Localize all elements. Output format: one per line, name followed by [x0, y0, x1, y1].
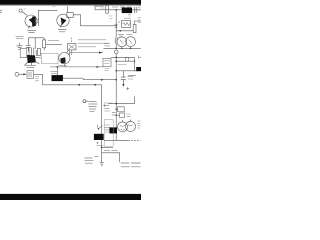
black blob BB3 on bus	[110, 128, 117, 133]
trimmer capacitor C2 in bus	[115, 38, 117, 49]
battery B1 (filled)	[122, 8, 132, 13]
branch wire y103.6 with hook	[108, 96, 135, 103]
connector J2	[15, 72, 19, 76]
lower rail of top-right cluster	[104, 47, 141, 49]
text right of T2	[137, 121, 140, 128]
text left of bus (right cluster)	[104, 103, 113, 105]
connector circle on bus	[115, 50, 119, 54]
marks below BB2	[96, 142, 98, 144]
Q4 bottom lead	[64, 64, 65, 67]
Q4 right lead to LWA	[69, 53, 70, 55]
tall enclosure rect	[104, 120, 113, 147]
box RB1	[118, 107, 125, 112]
junction dot	[120, 30, 122, 32]
text above wire	[48, 40, 59, 42]
long wire LWC	[63, 78, 116, 80]
resistor R2 right edge	[133, 25, 136, 33]
bias box above Q2	[67, 13, 73, 18]
T1 inner marks	[120, 40, 132, 44]
node marks	[115, 21, 120, 27]
wire top rail Q1 to Q2	[39, 10, 58, 12]
long wire LWA with arrow	[70, 52, 103, 54]
branch wire to BB1	[116, 70, 136, 72]
Q1 label text	[28, 30, 37, 32]
transistor Q1 circle	[25, 15, 37, 27]
wire joining verticals	[28, 37, 44, 39]
transistor Q5 body blob	[27, 55, 35, 62]
IF can box B3	[20, 49, 27, 58]
Q5 radiating leads	[24, 58, 41, 66]
small cross node	[126, 87, 129, 90]
B2 lower leads	[70, 50, 72, 55]
wire down right to caption area	[102, 153, 120, 163]
wire under R6	[116, 30, 133, 32]
top border gray underline	[0, 4, 141, 7]
text above ground	[16, 36, 24, 38]
output transformer T2 circles	[118, 122, 128, 132]
wire to box B2	[46, 43, 62, 45]
connector J3 bottom mid	[83, 100, 86, 103]
text above blob BB4	[51, 71, 58, 73]
T1 labels above	[118, 34, 133, 36]
C3 label	[128, 77, 134, 79]
ground G1 at bus bottom	[100, 162, 104, 165]
crystal Y1 box	[27, 71, 34, 79]
R6 label above	[124, 17, 131, 19]
top border bar	[0, 0, 141, 5]
LWC arrow tick	[101, 79, 104, 81]
C2 label text	[104, 44, 110, 46]
transistor Q2 circle	[57, 14, 69, 26]
potentiometer arrow	[97, 125, 102, 129]
resistor R4	[43, 40, 46, 48]
J1 lead into Q1	[22, 12, 27, 16]
text row under branch	[118, 64, 127, 66]
capacitor C3 below branch	[121, 71, 126, 84]
Q1 base lead marks	[36, 20, 38, 23]
wire y140.4 with dashes right	[104, 139, 128, 141]
wire L from bias box to right bus	[73, 15, 116, 26]
Q2 label text	[58, 30, 67, 32]
Q5 label	[25, 65, 36, 67]
winding leads	[29, 48, 36, 57]
transistor Q4 circle	[59, 53, 70, 64]
black blob component BB1 right edge	[137, 67, 142, 71]
long wire LWB	[50, 66, 103, 68]
R2 top stub	[135, 21, 141, 25]
top right rail wire	[95, 6, 141, 10]
IF transformer T1 circles	[117, 37, 127, 47]
LWD arrow ticks	[77, 84, 96, 86]
text left of bus top	[109, 16, 113, 18]
T2 top stems	[123, 119, 131, 122]
capacitor C1 top right	[134, 7, 141, 13]
vertical wire x35	[34, 38, 36, 49]
box RB2 below	[120, 113, 125, 118]
caption text bottom right	[121, 163, 141, 167]
B2 top dashes	[71, 38, 73, 42]
J1 tiny label	[24, 8, 26, 10]
left margin label (cut text at left edge)	[0, 11, 2, 13]
resistor box R6 top right	[122, 21, 131, 28]
Q1 collector vertical wire	[38, 10, 40, 26]
Q2 top stub	[66, 6, 68, 12]
R1 label	[100, 6, 105, 8]
resistor R3 between branch wires	[126, 57, 129, 61]
text block TB1	[89, 102, 98, 112]
connector J1 top-left	[19, 9, 22, 12]
junction node on bus	[115, 25, 117, 27]
stub from LWB down to BB4	[56, 67, 58, 76]
ground symbol left	[17, 43, 23, 50]
Y1 right lead and corner down to LWD	[34, 74, 43, 85]
black blob component BB4	[52, 75, 63, 80]
B1 polarity marks below	[128, 15, 131, 16]
wire y147.3	[102, 146, 113, 148]
bottom border bar	[0, 194, 141, 200]
text above that wire	[104, 150, 118, 152]
label box text	[104, 61, 109, 64]
junction dot top rail at bus	[115, 9, 117, 11]
Q4 top lead	[66, 50, 68, 53]
text right of Y1	[35, 76, 39, 80]
capacitor C4	[26, 38, 31, 52]
caption text under top bar right	[112, 6, 131, 8]
C1 label right	[138, 6, 141, 23]
Q4 label text	[59, 65, 68, 67]
resistor R1 on top rail	[106, 5, 109, 13]
text below label box	[104, 69, 109, 71]
box B2	[68, 44, 76, 50]
LWB arrow tick	[97, 66, 100, 68]
short wire below BB1	[128, 75, 136, 77]
T1 stems	[122, 47, 131, 49]
B1 label above	[118, 4, 126, 6]
junction dots on lower rail	[115, 48, 117, 50]
Q4 body blob	[61, 58, 66, 64]
main bus vertical (upper)	[115, 10, 117, 38]
transistor Q1 body (heavy ink bar)	[28, 17, 35, 29]
pot label	[104, 125, 110, 132]
text right of RB2	[126, 114, 130, 116]
text block mid (3 rows)	[78, 40, 108, 47]
C3 arrow to ground	[122, 84, 124, 87]
T2 inner marks	[120, 125, 133, 130]
J2 arrow wire	[19, 73, 24, 75]
mid vertical bus	[101, 85, 103, 163]
tick and label right end	[139, 55, 141, 58]
comp bars left of bus	[112, 113, 116, 115]
main vertical bus (lower)	[115, 54, 117, 141]
text left of G1	[85, 157, 99, 164]
vertical link x134.5	[134, 57, 136, 70]
label box left of bus	[103, 58, 111, 66]
long wire LWD	[43, 84, 102, 86]
branch wire pair to R3	[111, 57, 135, 61]
R6 zigzag	[123, 22, 130, 25]
text right of plus	[104, 109, 110, 111]
plus mark	[103, 104, 105, 106]
small mark under bar mid	[53, 6, 56, 8]
resistor R5	[37, 48, 40, 55]
black blob BB2 (electrolytic)	[94, 134, 103, 140]
transistor Q2 body (heavy ink)	[60, 18, 66, 27]
light enclosure box between stages	[42, 54, 59, 64]
